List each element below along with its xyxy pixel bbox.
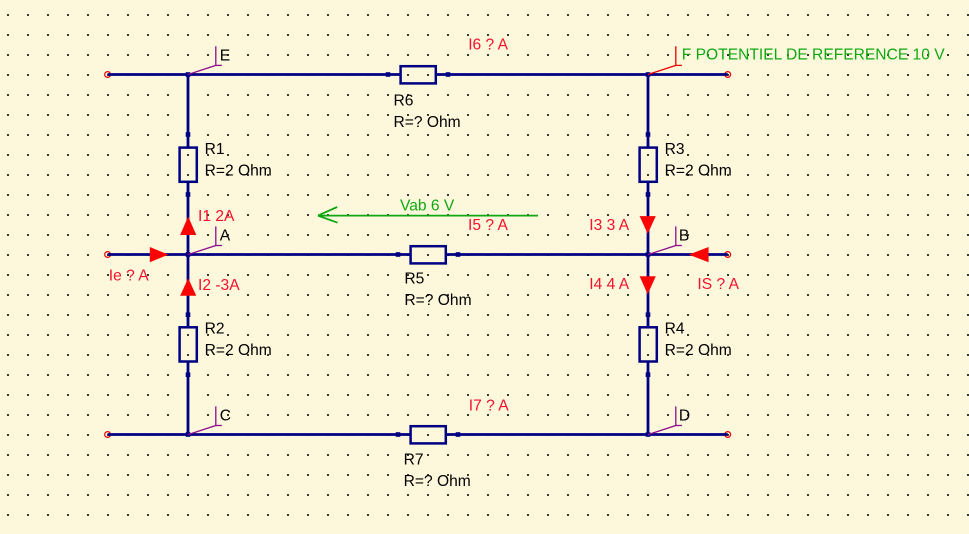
terminal middle-left — [105, 252, 111, 258]
wire bottom row right (R7 to terminal) — [447, 433, 728, 436]
svg-text:I3 3 A: I3 3 A — [589, 217, 629, 234]
svg-text:D: D — [679, 407, 690, 424]
terminal top-right — [725, 72, 731, 78]
resistor R4 — [640, 312, 657, 377]
svg-text:C: C — [220, 407, 231, 424]
node A — [186, 226, 231, 256]
wire right branch B to R4 — [647, 255, 650, 327]
current arrow I4 (down) — [640, 276, 656, 294]
current arrow Ie (right) — [150, 247, 169, 262]
svg-text:I2 -3A: I2 -3A — [198, 277, 240, 294]
wire left branch A to R2 — [187, 255, 190, 327]
wire right branch F to R3 — [647, 75, 650, 148]
svg-text:R3: R3 — [665, 141, 685, 158]
wire right branch R4 to D — [647, 362, 650, 435]
wire left branch E to R1 — [187, 75, 190, 148]
svg-text:R=? Ohm: R=? Ohm — [404, 292, 471, 309]
svg-text:R4: R4 — [665, 321, 685, 338]
wire right branch R3 to B — [647, 183, 650, 255]
svg-text:R=? Ohm: R=? Ohm — [394, 114, 461, 131]
wire left branch R1 to A — [187, 183, 190, 255]
wire left branch R2 to C — [187, 362, 190, 435]
wire middle row right (R5 to terminal) — [447, 253, 728, 256]
svg-text:IS ? A: IS ? A — [697, 276, 739, 293]
resistor R2 — [180, 312, 197, 377]
node B — [646, 226, 690, 256]
svg-text:I7 ? A: I7 ? A — [469, 398, 509, 415]
svg-text:R=2 Ohm: R=2 Ohm — [205, 342, 272, 359]
voltage arrow Vab (left) — [318, 207, 538, 223]
terminal bottom-left — [105, 432, 111, 438]
node F — [646, 46, 682, 76]
current arrow I3 (down) — [640, 216, 656, 234]
svg-text:R=? Ohm: R=? Ohm — [404, 473, 471, 490]
terminal top-left — [105, 72, 111, 78]
resistor R6 — [386, 66, 451, 83]
svg-text:I4 4 A: I4 4 A — [589, 276, 629, 293]
svg-text:I5 ? A: I5 ? A — [468, 217, 508, 234]
svg-text:R=2 Ohm: R=2 Ohm — [665, 342, 732, 359]
svg-text:Ie ? A: Ie ? A — [109, 268, 149, 285]
svg-text:R=2 Ohm: R=2 Ohm — [205, 163, 272, 180]
node C — [186, 406, 231, 436]
terminal bottom-right — [725, 432, 731, 438]
svg-text:I6 ? A: I6 ? A — [468, 37, 508, 54]
node E — [186, 46, 231, 76]
svg-text:R2: R2 — [205, 321, 225, 338]
resistor R7 — [396, 426, 461, 443]
wire middle row left (terminal to R5) — [108, 253, 410, 256]
resistor R5 — [396, 246, 461, 263]
svg-text:R7: R7 — [404, 452, 424, 469]
node D — [646, 406, 690, 436]
svg-text:F POTENTIEL DE REFERENCE 10 V: F POTENTIEL DE REFERENCE 10 V — [682, 46, 945, 63]
svg-text:R5: R5 — [404, 271, 424, 288]
svg-text:R6: R6 — [394, 92, 414, 109]
svg-text:B: B — [679, 227, 689, 244]
resistor R3 — [640, 132, 657, 197]
current arrow IS (left) — [689, 247, 709, 262]
svg-text:A: A — [220, 227, 231, 244]
resistor R1 — [180, 132, 197, 197]
wire top row left (terminal to R6) — [108, 73, 400, 76]
current arrow I2 (up) — [180, 278, 196, 296]
svg-text:I1 2A: I1 2A — [198, 208, 235, 225]
terminal middle-right — [725, 252, 731, 258]
svg-text:R=2 Ohm: R=2 Ohm — [665, 163, 732, 180]
wire bottom row left (terminal to R7) — [108, 433, 410, 436]
svg-text:R1: R1 — [205, 141, 225, 158]
wire top row right (R6 to terminal) — [437, 73, 728, 76]
svg-text:Vab 6 V: Vab 6 V — [400, 198, 455, 215]
current arrow I1 (up) — [180, 217, 196, 236]
svg-text:E: E — [220, 47, 230, 64]
